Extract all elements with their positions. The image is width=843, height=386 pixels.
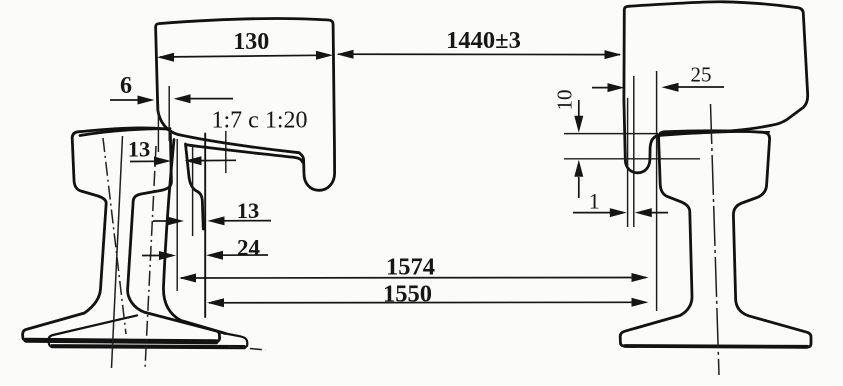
dim 10 (vertical) [574, 100, 583, 198]
svg-text:25: 25 [691, 63, 712, 87]
svg-text:13: 13 [128, 137, 151, 162]
rail R1 (left rail, canted) [23, 128, 220, 342]
dim 13 upper [130, 156, 236, 165]
rail R2 web-right long curve (second rail position) [163, 140, 225, 334]
svg-text:130: 130 [233, 29, 269, 55]
wheel W1 (left wheel profile) [156, 18, 335, 190]
foot bottoms extra weight [26, 340, 216, 342]
dim 1440±3 [337, 50, 622, 59]
ext wheel outer face [157, 104, 159, 152]
svg-text:1574: 1574 [386, 254, 435, 281]
svg-text:13: 13 [237, 198, 260, 223]
thin extension lines [158, 71, 700, 311]
axis rail R1 inclined dash-dot [103, 138, 126, 334]
dim 130 [157, 51, 333, 62]
svg-text:6: 6 [120, 73, 132, 99]
dim 24 [142, 251, 268, 260]
ext flange gap right [633, 76, 635, 227]
ext taper point [225, 131, 227, 173]
dim 1550 [207, 298, 649, 308]
dim 6 [110, 94, 233, 104]
axis rail R3 [711, 104, 720, 375]
wheel W1 tread second position line [186, 145, 303, 162]
dash-dot along foot2 bottom right [228, 347, 266, 351]
svg-text:1550: 1550 [383, 281, 432, 308]
rail R2 gauge corner piece [186, 144, 204, 229]
ext flange gap left [627, 98, 629, 227]
center lines [103, 104, 719, 375]
svg-text:1:7 с 1:20: 1:7 с 1:20 [212, 108, 308, 134]
dim 13 lower [153, 216, 271, 225]
ext measure level right [564, 158, 700, 160]
ext tread level right [564, 133, 658, 135]
ext 13 lower [192, 145, 194, 236]
rail R2 foot [49, 315, 248, 347]
rail R3 foot bottom extra weight [625, 344, 807, 349]
rail R2 gauge face line (1550 reference) [204, 134, 206, 318]
ext rail gauge upper [168, 86, 170, 141]
dim 25 [592, 83, 724, 92]
ext 1574 left [176, 139, 178, 291]
rail R1 head-top / wheel tread overlap line [80, 129, 170, 136]
rail R3 head top line under tread [660, 132, 769, 136]
svg-text:10: 10 [553, 90, 577, 111]
dim 1 [573, 208, 668, 217]
dimension lines with arrows [110, 50, 724, 308]
svg-text:1440±3: 1440±3 [446, 27, 521, 54]
ext flange face right [656, 71, 658, 311]
axis wheel/rail R2 dash-dot [145, 146, 156, 369]
wheel W2 (right wheel profile) [624, 2, 808, 173]
dim 1574 [179, 273, 649, 283]
rail R3 (right rail) [620, 131, 811, 347]
svg-text:24: 24 [237, 236, 261, 261]
axis rail R1 vertical reference [112, 136, 123, 368]
svg-text:1: 1 [589, 189, 600, 214]
